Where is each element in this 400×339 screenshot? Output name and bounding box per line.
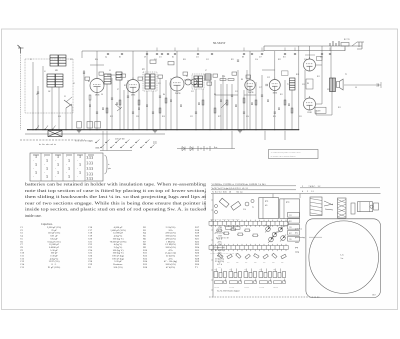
gang capacitor box — [48, 131, 62, 137]
resistor R22 — [119, 100, 121, 105]
svg-text:T2: T2 — [345, 74, 347, 76]
wire — [316, 64, 323, 66]
wire — [264, 131, 266, 140]
table divider — [62, 153, 64, 181]
wire — [96, 93, 98, 130]
capacitor on HT rail — [156, 53, 158, 55]
wire — [195, 89, 197, 130]
diode MR1 — [182, 147, 185, 151]
switch contacts on bus — [36, 126, 39, 130]
svg-text:C25: C25 — [299, 116, 302, 118]
wire — [316, 103, 323, 105]
table divider — [51, 153, 53, 181]
panel left border — [212, 194, 214, 298]
small box 2 — [374, 203, 379, 210]
wire — [83, 70, 85, 130]
wire — [226, 84, 228, 130]
wire — [71, 106, 73, 130]
svg-text:R17: R17 — [218, 116, 221, 118]
svg-text:LS: LS — [355, 87, 357, 89]
svg-text:C24: C24 — [246, 116, 249, 118]
resistor box on rail — [168, 62, 174, 65]
svg-text:to: to — [108, 164, 109, 166]
capacitor on HT rail — [211, 53, 213, 55]
wire — [138, 84, 140, 130]
valve pin table — [30, 153, 103, 181]
svg-text:R21: R21 — [245, 262, 248, 264]
svg-text:B1 7.5V: B1 7.5V — [344, 39, 351, 41]
svg-text:T3: T3 — [252, 207, 254, 209]
switch baseline — [100, 150, 132, 152]
capacitor C7 — [111, 97, 113, 99]
svg-text:DK96: DK96 — [95, 95, 99, 97]
svg-text:2.2 k(5%)10 k220 k(5%)100 k(5%: 2.2 k(5%)10 k220 k(5%)100 k(5%)470 k(5%)… — [164, 226, 177, 269]
svg-text:DL: DL — [307, 83, 309, 85]
svg-text:C2 R1 C5 R3 C7 R4 C9 R6: C2 R1 C5 R3 C7 R4 C9 R6 C10 R8 C12 R9 — [210, 219, 240, 221]
tag panel stack — [288, 213, 300, 218]
wire — [315, 110, 317, 115]
resistor R26b — [214, 108, 216, 113]
svg-text:C20: C20 — [136, 116, 139, 118]
svg-text:C23: C23 — [327, 89, 330, 91]
wire — [89, 100, 91, 130]
capacitor C16 — [237, 59, 239, 61]
wire — [255, 82, 257, 130]
resistor R27b — [226, 100, 228, 105]
voltage table rule — [211, 185, 296, 187]
svg-text:C4: C4 — [105, 57, 107, 59]
capacitor on HT rail — [294, 53, 296, 55]
wire — [249, 51, 251, 80]
svg-text:R4 C9 R6 C11 R9: R4 C9 R6 C11 R9 — [216, 238, 229, 240]
wire — [243, 90, 245, 130]
resistor R24b — [165, 98, 167, 103]
capacitor on HT rail — [121, 53, 123, 55]
angled components row — [218, 253, 223, 258]
battery B1 — [330, 41, 339, 46]
svg-text:C16 R25: C16 R25 — [214, 287, 219, 289]
capacitor C15 — [231, 94, 233, 96]
wire HT rail left section — [82, 50, 264, 52]
svg-text:batteries can be retained in h: batteries can be retained in holder with… — [25, 183, 206, 187]
svg-text:C18 R27: C18 R27 — [244, 287, 249, 289]
wire secondary bus — [25, 133, 165, 135]
capacitor C10 — [127, 95, 129, 97]
svg-text:DAF96: DAF96 — [248, 91, 253, 94]
ground — [153, 130, 157, 132]
svg-text:R23: R23 — [278, 59, 281, 61]
IF can box 2 — [280, 199, 300, 219]
resistor R1 — [89, 95, 91, 100]
speaker baffle — [306, 219, 381, 298]
wire — [220, 84, 222, 130]
wire link — [215, 94, 238, 96]
coil L3 — [47, 74, 55, 87]
capacitor C2 — [37, 91, 39, 93]
svg-text:C22: C22 — [190, 116, 193, 118]
wire — [231, 131, 233, 149]
svg-text:C17: C17 — [259, 87, 262, 89]
svg-text:C27: C27 — [70, 59, 73, 61]
svg-text:V1 DK96 fc V2 DF96 i.f. V3 D: V1 DK96 fc V2 DF96 i.f. V3 DAF96 det V4 … — [212, 183, 266, 186]
svg-text:R8: R8 — [242, 57, 244, 59]
extra verticals — [222, 75, 224, 130]
svg-text:C14: C14 — [255, 59, 258, 61]
svg-text:MW: MW — [55, 70, 58, 72]
svg-text:C19: C19 — [267, 77, 270, 79]
svg-text:R17: R17 — [289, 233, 292, 235]
svg-text:DL96: DL96 — [308, 112, 312, 114]
svg-text:R12: R12 — [289, 221, 292, 223]
svg-text:L.S.: L.S. — [341, 255, 345, 257]
wire — [176, 51, 178, 75]
extra IF strip parts — [85, 77, 90, 80]
svg-text:R2: R2 — [124, 85, 126, 87]
resistor R25b — [202, 100, 204, 105]
wire — [316, 114, 332, 116]
wire — [330, 46, 332, 78]
svg-text:C19: C19 — [259, 269, 262, 271]
svg-text:R11: R11 — [280, 94, 283, 96]
valve V6 DL96 — [304, 59, 316, 71]
IF can box 1 — [259, 198, 279, 219]
svg-text:NL5X25T: NL5X25T — [213, 41, 226, 45]
resistor R29b — [284, 100, 286, 105]
svg-text:Va 90 Vs 67 Ia (mA) 2.4 0.7: Va 90 Vs 67 Ia (mA) 2.4 0.70 6 45 2.1 — [212, 187, 249, 190]
valve V4 DAF96 — [245, 80, 255, 90]
electrolytic C28 — [95, 122, 101, 129]
svg-text:C16: C16 — [304, 59, 307, 61]
svg-text:C20: C20 — [320, 57, 323, 59]
svg-text:465: 465 — [265, 205, 268, 207]
svg-text:C18: C18 — [244, 269, 247, 271]
panel bottom dotted line — [209, 296, 320, 298]
IF transformer IFT1 — [143, 72, 157, 91]
svg-text:R24: R24 — [272, 262, 275, 264]
wire — [159, 78, 161, 130]
label box R16 — [234, 226, 241, 229]
capacitor on HT rail — [284, 53, 286, 55]
svg-text:2 7.4 B.C. 3.2: 2 7.4 B.C. 3.2 — [302, 186, 320, 188]
pointer arrows — [324, 201, 333, 210]
wire HT rail right section — [264, 45, 362, 47]
svg-text:R8: R8 — [241, 79, 243, 81]
wire link — [262, 69, 275, 71]
electrolytic can 2 — [231, 201, 241, 210]
wire — [284, 80, 286, 130]
capacitor on HT rail — [146, 53, 148, 55]
svg-text:R19: R19 — [110, 116, 113, 118]
wire — [51, 87, 53, 130]
svg-text:R20: R20 — [183, 59, 186, 61]
resistor R21 — [106, 108, 108, 113]
svg-text:100Δ: 100Δ — [95, 147, 100, 150]
wire — [202, 89, 204, 130]
wire link — [184, 79, 192, 81]
svg-text:C28 C29 R30: C28 C29 R30 — [115, 139, 125, 141]
svg-text:drive: drive — [295, 233, 299, 235]
svg-text:R11: R11 — [283, 57, 286, 59]
coil L7 — [205, 74, 211, 80]
valve V5 DL96 — [269, 80, 280, 91]
interstage transformer T1 — [290, 78, 296, 90]
wire — [209, 80, 211, 130]
svg-text:C25: C25 — [289, 239, 292, 241]
svg-text:C14: C14 — [243, 209, 246, 211]
svg-text:Rect.: Rect. — [214, 147, 218, 149]
ground — [77, 130, 81, 132]
jack J1 — [357, 42, 364, 49]
svg-text:R25: R25 — [281, 262, 284, 264]
svg-text:R4: R4 — [163, 94, 165, 96]
svg-text:S1 S3 S5 S7 S9 S11 S13: S1 S3 S5 S7 S9 S11 S13 — [75, 141, 93, 143]
frame aerial L1 box — [25, 59, 73, 113]
battery box BATT — [315, 107, 326, 113]
dial drive strip — [338, 198, 347, 218]
capacitor C31 — [152, 111, 154, 113]
wire — [132, 93, 134, 130]
svg-text:C19 R28: C19 R28 — [259, 287, 264, 289]
wire — [176, 91, 178, 130]
wire — [231, 84, 233, 130]
wire main earth bus — [27, 129, 299, 131]
transistor cluster — [266, 227, 271, 232]
svg-text:pins: pins — [108, 168, 111, 170]
svg-text:R15: R15 — [338, 107, 341, 109]
resistor R30b — [291, 108, 293, 113]
coil L6 — [116, 72, 122, 80]
aerial A1 — [18, 45, 24, 53]
table divider — [40, 153, 42, 181]
electrolytic C26 — [77, 122, 82, 129]
wire — [305, 54, 315, 56]
wire — [127, 80, 129, 130]
diode MR2 — [190, 147, 193, 151]
loudspeaker LS — [337, 79, 344, 90]
capacitor C35 — [96, 111, 98, 113]
svg-text:7s 0.5 6.3 0.05 50: 7s 0.5 6.3 0.05 50 94 1.4 — [212, 192, 243, 194]
capacitor C22 — [376, 84, 378, 87]
valve V7 DL96 — [304, 98, 316, 110]
svg-text:R23: R23 — [263, 262, 266, 264]
wire link — [107, 74, 120, 76]
wire — [65, 108, 67, 130]
svg-text:C16: C16 — [214, 269, 217, 271]
small loops — [215, 205, 218, 208]
output transformer T2 — [330, 78, 336, 92]
wire — [237, 70, 239, 130]
svg-text:C13: C13 — [191, 91, 194, 93]
tag strip row A — [209, 221, 288, 225]
battery cells — [198, 146, 210, 151]
wire — [32, 62, 34, 130]
wire — [146, 91, 148, 130]
svg-text:rear of two sections engage.: rear of two sections engage. While this … — [25, 201, 207, 205]
svg-text:C23: C23 — [289, 227, 292, 229]
svg-text:IFT1: IFT1 — [265, 201, 269, 203]
wire — [42, 66, 44, 130]
svg-text:C9: C9 — [144, 57, 146, 59]
trimmer C1 — [64, 100, 72, 108]
label box C22 — [226, 226, 233, 229]
extra caps — [89, 104, 91, 106]
svg-text:☰☰: ☰☰ — [153, 142, 157, 145]
capacitor on HT rail — [161, 53, 163, 55]
capacitor on HT rail — [329, 53, 331, 55]
svg-text:C15 R10 C16 R11 C18 R12: C15 R10 C16 R11 C18 R12 C19 R13 C21 — [210, 253, 238, 255]
wire — [106, 84, 108, 130]
capacitor on HT rail — [167, 53, 169, 55]
bottom component clusters — [214, 272, 218, 278]
svg-text:VOL: VOL — [222, 76, 225, 78]
capacitor C36 — [132, 111, 134, 113]
wire — [261, 75, 263, 130]
svg-text:T1: T1 — [287, 84, 289, 86]
coupling C19 — [265, 84, 267, 86]
svg-text:C20 R29: C20 R29 — [273, 287, 278, 289]
bracket — [105, 155, 108, 174]
svg-text:R22: R22 — [254, 262, 257, 264]
trimmers — [245, 202, 249, 206]
coil L2 — [59, 55, 67, 66]
svg-text:C17: C17 — [229, 269, 232, 271]
svg-text:C18: C18 — [58, 116, 61, 118]
electrolytic C27 — [87, 122, 93, 129]
svg-text:C17: C17 — [259, 57, 262, 59]
wire — [291, 90, 293, 130]
svg-text:333333333333333: 333333333333333 — [87, 156, 94, 181]
wire — [309, 46, 311, 59]
battery cylinder — [358, 202, 373, 212]
svg-text:C21: C21 — [302, 84, 305, 86]
svg-text:V3: V3 — [265, 225, 267, 227]
svg-text:L7: L7 — [205, 70, 207, 72]
trimmer C8 — [115, 104, 122, 111]
svg-text:R13: R13 — [317, 76, 320, 78]
svg-text:C20: C20 — [273, 269, 276, 271]
speaker cone — [309, 221, 379, 294]
svg-text:V4: V4 — [283, 226, 285, 228]
resistor box on rail — [150, 60, 156, 63]
svg-text:V3: V3 — [186, 76, 188, 78]
fuse F1 — [341, 43, 349, 47]
capacitor on HT rail — [107, 53, 109, 55]
wire link — [244, 94, 256, 96]
wire — [96, 51, 98, 77]
svg-text:R24: R24 — [95, 59, 98, 61]
capacitor C12 — [159, 95, 161, 97]
capacitor C34 — [274, 111, 276, 113]
table divider — [84, 153, 86, 181]
svg-text:C11: C11 — [159, 57, 162, 59]
capacitor on HT rail — [243, 53, 245, 55]
wire — [177, 148, 235, 150]
switch S1 — [66, 97, 72, 102]
svg-text:C12: C12 — [206, 59, 209, 61]
label box top — [317, 57, 323, 61]
wire — [304, 70, 306, 99]
pin table headers — [33, 154, 94, 156]
oscillator coil L5 — [104, 74, 111, 84]
tag strip row B — [209, 246, 288, 250]
right table rule a — [300, 187, 380, 189]
switch bank S4-S21 — [96, 140, 100, 143]
svg-text:C15: C15 — [235, 91, 238, 93]
capacitor on HT rail — [261, 53, 263, 55]
table divider — [73, 153, 75, 181]
svg-text:IFT1: IFT1 — [142, 69, 145, 71]
coil L4 — [56, 74, 64, 87]
svg-text:C7: C7 — [117, 89, 119, 91]
svg-text:R12: R12 — [296, 74, 299, 76]
diode D1 — [185, 79, 191, 85]
wire — [123, 90, 125, 130]
volume control R7 — [220, 79, 226, 81]
wire — [249, 90, 251, 129]
svg-text:R19: R19 — [227, 262, 230, 264]
rail stubs — [156, 48, 158, 52]
IF transformer IFT2 — [192, 74, 204, 89]
svg-text:L1: L1 — [44, 71, 46, 73]
coil L1 — [50, 55, 58, 66]
electrolytic can 1 — [219, 198, 229, 207]
table column stubs — [272, 194, 274, 198]
valve V3 DAF96 — [170, 77, 184, 91]
svg-text:R2: R2 — [119, 57, 121, 59]
diode D2 — [191, 79, 197, 85]
svg-text:des this when and via: des this when and via — [39, 144, 56, 146]
wire — [214, 80, 216, 130]
svg-text:C6: C6 — [101, 94, 103, 96]
small parts row — [217, 229, 222, 232]
left border ticks — [211, 200, 213, 290]
svg-text:R20: R20 — [236, 262, 239, 264]
wire — [331, 92, 333, 116]
svg-text:R18: R18 — [162, 116, 165, 118]
svg-text:C13: C13 — [196, 57, 199, 59]
wire link — [90, 64, 104, 66]
wire link — [204, 79, 210, 81]
capacitor on HT rail — [197, 53, 199, 55]
svg-text:cursor: cursor — [295, 242, 299, 244]
svg-text:R5: R5 — [172, 57, 174, 59]
svg-text:S2: S2 — [73, 83, 75, 85]
switch S2 — [221, 102, 227, 108]
resistor R9 — [243, 98, 245, 103]
valve V2 DF96 — [127, 80, 140, 93]
capacitor on HT rail — [174, 53, 176, 55]
svg-text:C1: C1 — [30, 59, 32, 61]
wire — [58, 87, 60, 130]
svg-text:IFT2: IFT2 — [286, 202, 290, 204]
svg-text:C17 R26: C17 R26 — [229, 287, 234, 289]
svg-text:R18: R18 — [218, 262, 221, 264]
svg-text:DAF96: DAF96 — [175, 92, 180, 95]
capacitor C33 — [243, 111, 245, 113]
resistor R3 — [138, 100, 140, 105]
svg-text:R21: R21 — [231, 59, 234, 61]
wire — [152, 91, 154, 130]
ground — [238, 130, 242, 132]
wire — [111, 78, 113, 130]
wire — [119, 80, 121, 130]
capacitor C5 — [83, 71, 85, 73]
wire rail start stub — [81, 51, 83, 58]
wire LT rail right section — [264, 50, 345, 52]
osc coil box — [310, 197, 322, 216]
svg-text:1057: 1057 — [372, 295, 376, 297]
small box — [351, 203, 355, 214]
